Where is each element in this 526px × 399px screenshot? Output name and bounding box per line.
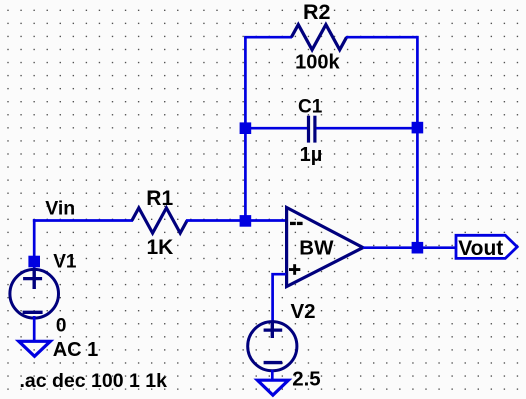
label R1 [146, 187, 173, 210]
wire V1 bottom [33, 316, 36, 341]
junction C1 right [412, 122, 424, 134]
value 2.5 [292, 367, 321, 390]
label V2 [291, 300, 316, 323]
wire junction A to op-amp minus input [245, 219, 286, 222]
junction V1 pin [28, 256, 40, 268]
net label Vout [458, 237, 503, 260]
op-amp U1 triangle [287, 208, 363, 287]
value 100k [295, 52, 340, 74]
wire R2 right lead [346, 36, 417, 39]
wire op-amp plus input [273, 274, 286, 321]
value AC 1 [53, 339, 99, 361]
wire op-amp output [363, 246, 457, 249]
label R2 [303, 0, 331, 24]
junction output [412, 242, 424, 254]
op-amp minus marker [290, 222, 303, 225]
spice directive .ac [20, 370, 168, 392]
wire V1 top vertical [33, 219, 36, 270]
value 1K [147, 236, 174, 259]
net label Vin [45, 197, 75, 219]
svg-text:100k: 100k [295, 52, 340, 74]
op-amp plus marker [289, 264, 300, 275]
voltage source V1 [10, 269, 59, 318]
resistor R2 [291, 25, 346, 50]
junction C1 left [240, 122, 252, 134]
wire R1 to junction A [186, 219, 247, 222]
wire Vin horizontal [33, 219, 133, 222]
svg-text:AC 1: AC 1 [53, 339, 99, 361]
svg-text:R1: R1 [146, 187, 173, 210]
svg-text:V2: V2 [291, 300, 316, 323]
svg-text:1µ: 1µ [300, 144, 323, 166]
svg-text:BW: BW [299, 236, 334, 259]
wire right vertical node column [416, 36, 419, 249]
label V1 [53, 252, 77, 273]
voltage source V2 [248, 322, 297, 371]
svg-text:2.5: 2.5 [292, 367, 321, 390]
wire C1 left lead [245, 127, 307, 130]
value 0 [56, 316, 67, 337]
svg-text:0: 0 [56, 316, 67, 337]
junction A [240, 215, 252, 227]
svg-text:Vout: Vout [458, 237, 503, 260]
svg-text:R2: R2 [303, 0, 331, 24]
wire V2 bottom [271, 370, 274, 381]
svg-text:C1: C1 [298, 97, 323, 118]
svg-text:V1: V1 [53, 252, 77, 273]
ground G1 [19, 341, 51, 356]
capacitor C1 [309, 116, 315, 143]
resistor R1 [132, 208, 187, 233]
svg-text:.ac dec 100 1 1k: .ac dec 100 1 1k [20, 370, 168, 392]
wire C1 right lead [316, 127, 417, 130]
value 1u [300, 144, 323, 166]
label C1 [298, 97, 323, 118]
svg-text:Vin: Vin [45, 197, 75, 219]
wire R2 left lead [244, 36, 292, 39]
output port flag Vout [456, 235, 517, 258]
wire left vertical node column [244, 37, 247, 221]
ground G2 [257, 380, 288, 395]
op-amp BW label [299, 236, 334, 259]
svg-text:1K: 1K [147, 236, 174, 259]
